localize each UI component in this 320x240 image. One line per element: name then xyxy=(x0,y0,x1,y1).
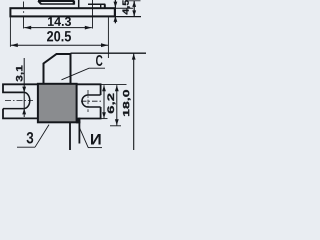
side view: lead bend line xyxy=(78,0,80,8)
extension line lead bottom right xyxy=(101,118,108,120)
dimension line 18,0 xyxy=(133,53,135,150)
flange bottom extension xyxy=(116,16,141,18)
left slot centerline xyxy=(5,100,33,102)
label C xyxy=(96,55,103,66)
dimension line 14.3 xyxy=(24,27,92,29)
plan view: left lead outline xyxy=(3,84,38,92)
extension line 20.5 left xyxy=(9,17,11,47)
extension line 20.5 right xyxy=(107,17,109,58)
right slot vertical centerline xyxy=(87,90,89,112)
leader line C xyxy=(62,68,106,80)
label И underline xyxy=(88,147,102,149)
inner dimension line (right) xyxy=(116,85,118,125)
label И xyxy=(91,134,101,145)
side view: lid top line xyxy=(38,0,74,2)
left lead slot arc xyxy=(24,92,30,108)
plan view: lead junction corner xyxy=(77,118,80,123)
flange top extension xyxy=(116,7,133,9)
extension line y125.8 xyxy=(110,125,121,127)
side view: right tab top line xyxy=(88,3,105,5)
dimension line 20.5 xyxy=(11,44,108,46)
flange thickness dimension line xyxy=(114,0,116,23)
value 6,2 xyxy=(107,94,115,114)
leader line З xyxy=(35,125,49,148)
side view: right tab end edge xyxy=(104,4,106,16)
right slot horizontal centerline xyxy=(81,100,101,102)
side view: lid left corner xyxy=(38,1,41,4)
side view: right tab fill xyxy=(88,4,105,8)
label З underline xyxy=(17,146,35,148)
value 14.3 xyxy=(48,17,71,26)
extension line 14.3 right xyxy=(92,0,94,29)
cap top extension xyxy=(128,0,141,2)
dimension line 6,2 xyxy=(103,85,105,118)
right lead slot arc xyxy=(82,95,88,107)
plan view: body bottom edge extension under source lead xyxy=(76,121,80,123)
label З xyxy=(27,132,34,144)
right lead slot lines xyxy=(88,95,101,107)
plan view: drain tab (C) xyxy=(44,54,71,85)
plan view: top extension line from drain tab xyxy=(71,52,147,54)
side view: flange xyxy=(10,8,114,16)
value 4,5 xyxy=(123,0,131,15)
extension line lead top right xyxy=(101,83,127,85)
value 3,1 xyxy=(16,66,24,82)
side view: right tab left edge xyxy=(100,4,102,8)
dimension line 4,5 xyxy=(133,1,135,17)
value 20.5 xyxy=(47,31,71,42)
extension line dot inside flange xyxy=(23,11,24,13)
plan view: source lead (И) left edge xyxy=(69,123,71,151)
dimension line 3,1 xyxy=(23,58,25,117)
extension line 14.3 left xyxy=(23,2,25,29)
side view: lid body fill xyxy=(39,1,75,8)
plan view: body (gray square) xyxy=(38,84,77,123)
side view: lid lower line xyxy=(41,3,74,5)
value 18,0 xyxy=(123,90,131,116)
plan view: right lead outline xyxy=(77,84,101,95)
leader line И xyxy=(80,128,89,148)
side view: lid right edge xyxy=(73,1,75,5)
plan view: source lead (И) right edge xyxy=(78,118,80,144)
